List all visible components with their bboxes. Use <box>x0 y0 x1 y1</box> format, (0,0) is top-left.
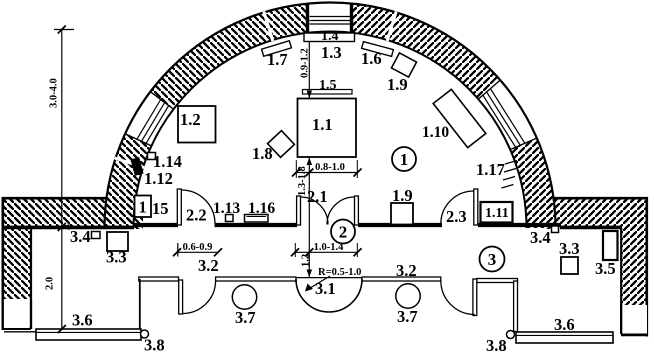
svg-text:3.4: 3.4 <box>70 227 91 246</box>
svg-text:3.8: 3.8 <box>144 336 165 352</box>
svg-text:1.14: 1.14 <box>153 152 182 171</box>
svg-text:2: 2 <box>339 223 348 242</box>
svg-text:3.3: 3.3 <box>559 239 580 258</box>
svg-text:1: 1 <box>400 150 409 169</box>
svg-text:1.9: 1.9 <box>392 186 413 205</box>
svg-text:1.2: 1.2 <box>180 110 201 129</box>
svg-text:3.8: 3.8 <box>486 336 507 352</box>
svg-text:1.10: 1.10 <box>422 124 449 141</box>
svg-text:3.5: 3.5 <box>595 259 616 278</box>
svg-text:1.7: 1.7 <box>267 50 288 69</box>
svg-text:1.6: 1.6 <box>361 49 382 68</box>
svg-text:1.11: 1.11 <box>485 206 509 221</box>
svg-text:1.2: 1.2 <box>301 254 312 267</box>
svg-text:3.1: 3.1 <box>315 279 336 298</box>
svg-text:1.4: 1.4 <box>321 29 339 44</box>
svg-text:2.2: 2.2 <box>186 206 207 225</box>
svg-text:0.6-0.9: 0.6-0.9 <box>183 242 213 253</box>
svg-text:1.0-1.4: 1.0-1.4 <box>314 242 344 253</box>
svg-text:3.2: 3.2 <box>198 256 219 275</box>
svg-text:R=0.5-1.0: R=0.5-1.0 <box>318 267 361 278</box>
svg-text:3.6: 3.6 <box>72 311 93 330</box>
svg-text:1.8: 1.8 <box>252 144 273 163</box>
svg-text:3.7: 3.7 <box>397 307 418 326</box>
svg-text:3.0-4.0: 3.0-4.0 <box>49 78 60 108</box>
svg-text:3.2: 3.2 <box>396 261 417 280</box>
svg-text:1.3-1.8: 1.3-1.8 <box>297 166 308 196</box>
svg-text:1: 1 <box>139 198 147 217</box>
svg-text:1.5: 1.5 <box>319 78 337 93</box>
svg-text:3: 3 <box>488 250 497 269</box>
svg-text:1.13: 1.13 <box>213 200 240 217</box>
svg-text:3.6: 3.6 <box>554 315 575 334</box>
svg-text:1.3: 1.3 <box>321 43 342 62</box>
svg-text:3.3: 3.3 <box>106 248 127 267</box>
svg-text:1.17: 1.17 <box>476 160 505 179</box>
svg-text:2.1: 2.1 <box>307 187 328 206</box>
svg-text:1.1: 1.1 <box>312 115 333 134</box>
svg-text:1.9: 1.9 <box>387 75 408 94</box>
svg-text:15: 15 <box>152 199 169 218</box>
svg-text:0.8-1.0: 0.8-1.0 <box>315 162 345 173</box>
svg-text:3.4: 3.4 <box>530 228 551 247</box>
svg-text:1.16: 1.16 <box>248 200 275 217</box>
svg-text:3.7: 3.7 <box>235 308 256 327</box>
svg-text:2.0: 2.0 <box>45 277 56 290</box>
svg-text:2.3: 2.3 <box>446 207 467 226</box>
svg-text:0.9-1.2: 0.9-1.2 <box>300 48 311 78</box>
svg-text:1.12: 1.12 <box>144 169 173 188</box>
